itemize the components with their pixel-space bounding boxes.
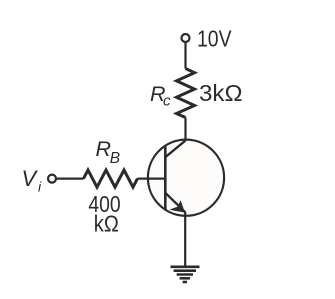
transistor Q1 collector stroke [165,141,185,158]
wire Rc to collector [184,118,186,142]
svg-text:V: V [22,166,39,191]
svg-text:c: c [163,93,171,110]
terminal 10V supply [182,34,190,42]
label Rc [150,82,171,110]
resistor RB [84,170,138,187]
wire RB to base [138,178,166,180]
svg-text:10V: 10V [197,26,232,52]
resistor Rc [177,69,195,118]
wire emitter to ground [184,212,186,267]
label RB [96,137,121,167]
transistor Q1 base bar [164,145,167,210]
transistor Q1 body circle [148,140,224,216]
transistor Q1 emitter stroke [165,193,185,212]
value label 400 kOhm [88,191,120,237]
wire supply to Rc [184,42,186,68]
svg-text:kΩ: kΩ [94,211,119,237]
svg-text:3kΩ: 3kΩ [199,80,243,106]
svg-text:B: B [110,150,120,167]
terminal Vi input [48,175,56,183]
ground [171,267,200,282]
transistor Q1 emitter arrow [169,200,185,212]
wire Vi terminal to RB [56,178,83,180]
svg-text:R: R [96,137,112,161]
label Vi [22,166,43,195]
